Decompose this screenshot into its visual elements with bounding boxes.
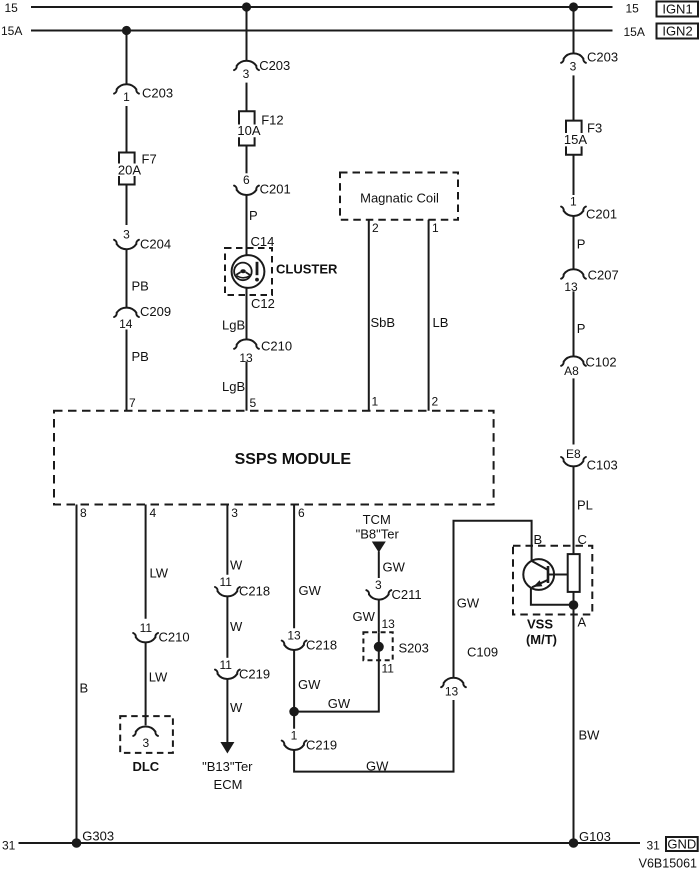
node A junction dot xyxy=(569,600,579,610)
svg-text:11: 11 xyxy=(219,575,232,589)
svg-text:TCM: TCM xyxy=(363,512,391,527)
connector C211 pin 3 xyxy=(366,578,421,602)
TCM terminal arrow "B8"Ter xyxy=(356,512,400,553)
wire column2 from rail 15 to connector C203 xyxy=(246,7,248,61)
VSS transistor base lead to resistor xyxy=(548,574,568,576)
connector C209 pin 14 xyxy=(114,304,171,331)
wire right column from rail 15 to connector C203 xyxy=(573,7,575,53)
svg-text:C204: C204 xyxy=(140,236,171,251)
svg-text:31: 31 xyxy=(647,839,661,853)
svg-text:C210: C210 xyxy=(261,339,292,354)
svg-text:1: 1 xyxy=(291,728,298,742)
svg-text:W: W xyxy=(230,700,243,715)
svg-text:S203: S203 xyxy=(399,641,429,656)
svg-text:GW: GW xyxy=(299,583,322,598)
wire column2 cluster C12 to connector C210, colour LgB xyxy=(222,288,275,340)
svg-text:11: 11 xyxy=(382,662,395,676)
wire SSPS pin 8 to ground rail, colour B xyxy=(77,505,89,844)
wire SSPS pin 6 to connector C218, colour GW xyxy=(294,505,322,629)
svg-text:LgB: LgB xyxy=(222,318,245,333)
wire C109 branch to VSS base, colour GW xyxy=(454,521,532,678)
svg-text:14: 14 xyxy=(119,317,133,331)
wire column1 F7 to connector C204 xyxy=(126,185,128,226)
connector C207 pin 13 xyxy=(561,267,619,294)
svg-text:15: 15 xyxy=(626,2,640,16)
connector C218 pin 13 (lower) xyxy=(282,629,337,653)
connector C219 pin 11 xyxy=(215,658,270,682)
svg-text:3: 3 xyxy=(375,578,382,592)
svg-text:C219: C219 xyxy=(239,666,270,681)
svg-text:PB: PB xyxy=(132,279,149,294)
svg-text:B: B xyxy=(534,532,543,547)
svg-text:VSS: VSS xyxy=(527,616,553,631)
connector C201 pin 6 xyxy=(234,173,291,196)
DLC dashed enclosure xyxy=(120,716,173,774)
svg-text:C207: C207 xyxy=(588,267,619,282)
wire rail 15 (top horizontal) xyxy=(5,1,640,15)
svg-text:15: 15 xyxy=(5,1,19,15)
svg-text:3: 3 xyxy=(231,506,238,520)
connector C219 pin 1 xyxy=(282,728,337,752)
svg-text:1: 1 xyxy=(570,194,577,208)
wire VSS emitter to output node xyxy=(531,588,574,605)
wire C210 to DLC, colour LW xyxy=(146,642,168,725)
resistor R1 (VSS pull-up) xyxy=(568,554,580,592)
svg-text:20A: 20A xyxy=(118,162,141,177)
wire right column C201 to C207, colour P xyxy=(574,216,586,269)
wire column2 F12 to connector C201 xyxy=(246,146,248,174)
svg-text:DLC: DLC xyxy=(132,759,159,774)
svg-text:P: P xyxy=(577,321,586,336)
svg-text:C218: C218 xyxy=(306,637,337,652)
svg-text:3: 3 xyxy=(243,67,250,81)
wire column2 C210 to SSPS pin 5, colour LgB xyxy=(222,362,257,411)
svg-text:G303: G303 xyxy=(82,829,114,844)
svg-text:C201: C201 xyxy=(260,182,291,197)
svg-text:IGN1: IGN1 xyxy=(662,2,692,17)
connector C102 pin A8 xyxy=(561,355,616,378)
svg-text:F12: F12 xyxy=(261,112,283,127)
svg-text:C14: C14 xyxy=(251,234,275,249)
svg-text:IGN2: IGN2 xyxy=(662,24,692,39)
VSS transistor Q1 xyxy=(523,559,554,590)
svg-text:CLUSTER: CLUSTER xyxy=(276,262,338,277)
svg-text:C103: C103 xyxy=(587,457,618,472)
connector C201 pin 1 (right column) xyxy=(561,194,617,221)
svg-text:1: 1 xyxy=(432,221,439,235)
wire Magnetic Coil pin 1 to SSPS pin 2, colour LB xyxy=(429,220,449,411)
svg-text:LB: LB xyxy=(433,315,449,330)
splice S203 dashed enclosure xyxy=(363,632,428,660)
wire right column C102 to C103 xyxy=(573,378,575,444)
wire C219 to ECM terminal, colour W xyxy=(227,679,243,743)
splice S203 wire and junction dot xyxy=(374,632,394,675)
DLC connector pin 3 xyxy=(133,727,158,750)
wire junction to S203, colour GW (horizontal) xyxy=(294,660,379,711)
connector C203 pin 3 (right column) xyxy=(561,50,618,74)
svg-text:3: 3 xyxy=(142,736,149,750)
svg-text:GW: GW xyxy=(328,696,351,711)
svg-text:11: 11 xyxy=(140,621,153,635)
svg-text:6: 6 xyxy=(243,173,250,187)
cluster speedometer indicator symbol xyxy=(232,255,265,288)
svg-text:13: 13 xyxy=(564,280,578,294)
svg-text:SSPS MODULE: SSPS MODULE xyxy=(235,451,352,468)
svg-text:F3: F3 xyxy=(587,121,602,136)
svg-text:GW: GW xyxy=(457,596,480,611)
svg-text:15A: 15A xyxy=(564,132,587,147)
ground rail 31 (bottom horizontal) xyxy=(2,839,660,853)
svg-text:GND: GND xyxy=(667,836,696,851)
svg-text:(M/T): (M/T) xyxy=(526,632,557,647)
wire C218 to C219, colour W xyxy=(227,596,243,658)
svg-text:11: 11 xyxy=(219,658,232,672)
svg-text:Magnatic Coil: Magnatic Coil xyxy=(360,191,439,206)
instrument cluster U1 dashed enclosure xyxy=(225,248,338,295)
ground G303 junction xyxy=(72,829,114,848)
svg-text:1: 1 xyxy=(123,90,130,104)
svg-text:10A: 10A xyxy=(237,123,260,138)
svg-text:GW: GW xyxy=(298,677,321,692)
svg-text:GW: GW xyxy=(353,609,376,624)
svg-text:P: P xyxy=(249,208,258,223)
connector C109 pin 13 xyxy=(441,678,466,699)
GND terminal box xyxy=(666,836,698,851)
svg-text:C210: C210 xyxy=(159,630,190,645)
SSPS MODULE dashed enclosure xyxy=(54,411,494,505)
node junction on rail 15A at column 1 xyxy=(122,26,131,35)
svg-text:C209: C209 xyxy=(140,304,171,319)
connector C204 pin 3 xyxy=(114,227,171,251)
svg-text:C109: C109 xyxy=(467,645,498,660)
svg-text:GW: GW xyxy=(383,559,406,574)
wire C211 to splice S203, colour GW, pin 13 xyxy=(353,599,396,632)
svg-text:LW: LW xyxy=(149,670,168,685)
svg-text:2: 2 xyxy=(432,394,439,408)
svg-text:3: 3 xyxy=(570,60,577,74)
svg-text:15A: 15A xyxy=(624,25,645,39)
svg-text:8: 8 xyxy=(80,506,87,520)
connector C210 pin 11 xyxy=(133,621,189,644)
svg-text:C218: C218 xyxy=(239,584,270,599)
wire right column C203 to fuse F3 xyxy=(573,75,575,120)
wire resistor to node A xyxy=(573,592,575,843)
ground G103 junction xyxy=(569,829,611,848)
svg-text:BW: BW xyxy=(579,728,601,743)
svg-text:PL: PL xyxy=(577,498,593,513)
svg-text:13: 13 xyxy=(287,629,301,643)
svg-text:7: 7 xyxy=(129,396,136,410)
svg-text:C211: C211 xyxy=(392,587,422,602)
svg-text:C201: C201 xyxy=(586,207,617,222)
fuse F3 15A xyxy=(564,121,602,155)
svg-text:3: 3 xyxy=(123,227,130,241)
connector C203 pin 1 (column 1) xyxy=(114,84,173,104)
IGN2 terminal box xyxy=(657,24,699,39)
wire rail 15A (second horizontal) xyxy=(1,24,645,39)
svg-text:C203: C203 xyxy=(259,58,290,73)
wire SSPS pin 4 to connector C210, colour LW xyxy=(146,505,169,619)
svg-text:GW: GW xyxy=(366,758,389,773)
VSS (M/T) dashed enclosure xyxy=(513,532,592,647)
IGN1 terminal box xyxy=(657,2,699,17)
svg-text:ECM: ECM xyxy=(214,777,243,792)
wire column1 from rail 15A to connector C203 xyxy=(126,31,128,85)
svg-text:C102: C102 xyxy=(586,355,617,370)
connector C218 pin 11 xyxy=(215,575,270,599)
wire right column F3 to connector C201 xyxy=(573,155,575,195)
wire column1 C203 to fuse F7 xyxy=(126,106,128,153)
svg-text:"B13"Ter: "B13"Ter xyxy=(202,759,253,774)
svg-text:PB: PB xyxy=(132,349,149,364)
svg-text:P: P xyxy=(577,237,586,252)
wire junction down to connector C219 xyxy=(293,712,295,729)
svg-text:"B8"Ter: "B8"Ter xyxy=(356,527,400,542)
svg-text:5: 5 xyxy=(250,396,257,410)
svg-text:B: B xyxy=(80,681,89,696)
ECM terminal arrow "B13"Ter xyxy=(202,742,253,792)
svg-text:13: 13 xyxy=(445,685,459,699)
wire right column C207 to C102, colour P xyxy=(574,291,586,356)
svg-text:LW: LW xyxy=(150,566,169,581)
fuse F7 20A xyxy=(118,152,157,185)
connector C203 pin 3 (column 2) xyxy=(234,58,290,81)
svg-text:C203: C203 xyxy=(142,86,173,101)
svg-text:SbB: SbB xyxy=(371,315,396,330)
connector C210 pin 13 (column 2) xyxy=(234,339,292,366)
wire C219 pin1 to C109 branch, colour GW xyxy=(294,700,453,773)
svg-text:C203: C203 xyxy=(587,50,618,65)
svg-text:E8: E8 xyxy=(566,447,581,461)
node junction at C219 branch xyxy=(289,707,299,717)
wire Magnetic Coil pin 2 to SSPS pin 1, colour SbB xyxy=(369,220,395,411)
svg-text:2: 2 xyxy=(372,221,379,235)
svg-text:13: 13 xyxy=(382,617,396,631)
wire SSPS pin 3 to connector C218, colour W xyxy=(227,505,243,575)
svg-text:C219: C219 xyxy=(306,738,337,753)
node junction on rail 15 at right column xyxy=(569,2,578,11)
svg-text:G103: G103 xyxy=(579,829,611,844)
fuse F12 10A xyxy=(237,111,283,145)
svg-text:31: 31 xyxy=(2,839,16,853)
wire column1 C204 to C209, colour PB xyxy=(127,249,149,308)
connector C103 pin E8 xyxy=(561,447,618,472)
Magnetic Coil dashed enclosure xyxy=(340,173,458,220)
svg-text:F7: F7 xyxy=(142,152,157,167)
svg-text:6: 6 xyxy=(298,506,305,520)
wire column2 C201 to CLUSTER, colour P xyxy=(247,195,275,255)
wire TCM to connector C211, colour GW xyxy=(379,552,406,579)
wire column2 C203 to fuse F12 xyxy=(246,83,248,112)
svg-text:W: W xyxy=(230,619,243,634)
wire right column C103 to VSS resistor, colour PL xyxy=(574,466,593,554)
svg-text:W: W xyxy=(230,558,243,573)
svg-text:A: A xyxy=(578,615,587,630)
svg-text:LgB: LgB xyxy=(222,379,245,394)
svg-text:V6B15061: V6B15061 xyxy=(639,857,697,871)
wire C218 to junction, colour GW xyxy=(294,650,321,712)
svg-text:15A: 15A xyxy=(1,24,22,38)
svg-text:C12: C12 xyxy=(251,296,275,311)
svg-text:4: 4 xyxy=(150,506,157,520)
node junction on rail 15 at column 2 xyxy=(242,2,251,11)
wire column1 C209 to SSPS pin 7, colour PB xyxy=(127,330,149,411)
svg-text:C: C xyxy=(578,532,587,547)
svg-text:A8: A8 xyxy=(564,364,579,378)
svg-text:1: 1 xyxy=(372,394,379,408)
